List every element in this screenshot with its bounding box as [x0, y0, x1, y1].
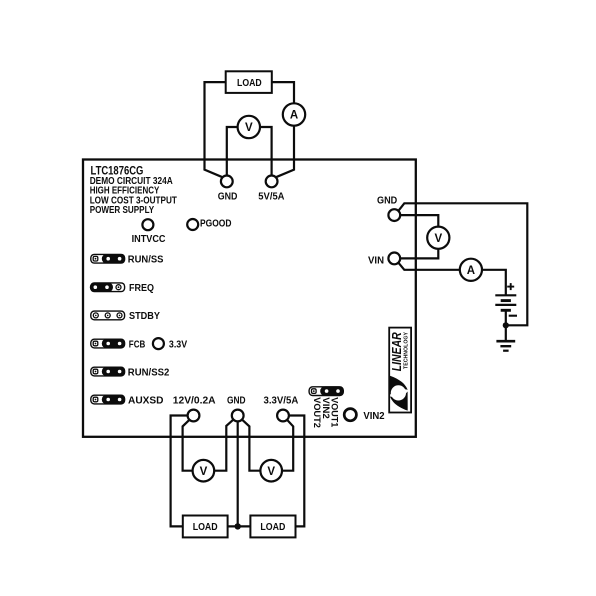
- svg-text:V: V: [200, 466, 208, 478]
- battery BT1 plates: [495, 295, 516, 325]
- svg-text:LOAD: LOAD: [193, 522, 218, 533]
- svg-text:V: V: [434, 233, 442, 245]
- circle PGOOD: [187, 219, 198, 230]
- svg-text:LINEAR: LINEAR: [390, 332, 404, 371]
- ammeter A2r: [460, 259, 482, 281]
- jumper VOUT1/VIN2/VOUT2: [309, 386, 344, 396]
- circle INTVCC: [142, 219, 153, 230]
- jumper FCB: [91, 339, 125, 349]
- svg-text:GND: GND: [377, 196, 397, 207]
- svg-text:FCB: FCB: [129, 339, 146, 350]
- logo LT mark: [390, 376, 408, 395]
- svg-text:V: V: [245, 122, 253, 134]
- jumper RUN/SS: [91, 254, 125, 264]
- svg-text:VIN: VIN: [368, 255, 384, 266]
- load LOAD (top): [226, 71, 272, 93]
- svg-text:5V/5A: 5V/5A: [258, 192, 284, 203]
- wire voltmeter V1b to GND bottom terminal: [214, 420, 233, 471]
- wire 3.3V terminal to LOAD2 right: [289, 416, 304, 527]
- node LOAD junction dot: [235, 523, 241, 529]
- svg-text:AUXSD: AUXSD: [128, 395, 164, 406]
- svg-text:GND: GND: [227, 396, 246, 407]
- svg-text:VIN2: VIN2: [363, 411, 385, 422]
- terminal 3.3V/5A: [277, 410, 289, 422]
- circle 3.3V: [153, 338, 164, 349]
- svg-text:VOUT2: VOUT2: [311, 397, 322, 428]
- jumper FREQ: [90, 283, 125, 293]
- wire LOAD1 to LOAD2 through junction: [228, 525, 251, 527]
- svg-text:12V/0.2A: 12V/0.2A: [173, 396, 216, 407]
- voltmeter V1b: [193, 460, 215, 482]
- ground symbol: [496, 325, 515, 350]
- voltmeter V1t: [238, 116, 260, 138]
- terminal GND (right): [388, 209, 400, 221]
- jumper STDBY: [91, 311, 125, 320]
- wire from voltmeter V2r to VIN terminal: [400, 249, 438, 259]
- svg-text:LOAD: LOAD: [260, 522, 285, 533]
- terminal GND (bottom): [232, 410, 244, 422]
- wire from LOAD right to ammeter A1t: [272, 82, 294, 103]
- svg-text:LOAD: LOAD: [237, 78, 262, 89]
- svg-text:A: A: [290, 110, 298, 122]
- wire from voltmeter V1t left to GND terminal top: [227, 127, 238, 176]
- terminal VIN: [388, 253, 400, 265]
- wire voltmeter V2b to 3.3V terminal: [282, 420, 293, 471]
- svg-text:RUN/SS2: RUN/SS2: [128, 367, 170, 378]
- svg-text:FREQ: FREQ: [129, 283, 154, 294]
- terminal 5V/5A: [266, 176, 278, 188]
- Linear Technology logo box: [389, 328, 411, 413]
- node battery negative junction: [503, 322, 509, 328]
- wire from GND right terminal to voltmeter V2r: [400, 215, 438, 227]
- load LOAD2 (bottom right): [250, 516, 295, 538]
- svg-text:PGOOD: PGOOD: [200, 218, 232, 229]
- jumper AUXSD: [91, 395, 125, 405]
- wire from ammeter A1t to 5V/5A terminal: [276, 126, 294, 178]
- svg-text:3.3V/5A: 3.3V/5A: [264, 396, 299, 407]
- wire from VIN terminal to ammeter A2r: [399, 263, 460, 270]
- ammeter A1t: [283, 103, 305, 125]
- svg-text:INTVCC: INTVCC: [132, 234, 166, 245]
- battery minus sign: [509, 315, 517, 317]
- svg-text:V: V: [267, 466, 275, 478]
- wire from LOAD left to GND terminal: [205, 82, 226, 177]
- wire from ammeter A2r to battery positive: [482, 270, 506, 296]
- svg-text:GND: GND: [218, 192, 238, 203]
- demo board outline: [83, 160, 416, 437]
- voltmeter V2b: [260, 460, 282, 482]
- voltmeter V2r: [427, 227, 449, 249]
- svg-text:RUN/SS: RUN/SS: [128, 255, 164, 266]
- wire 12V terminal to voltmeter V1b: [183, 420, 193, 471]
- battery plus sign: [507, 283, 514, 290]
- svg-text:A: A: [467, 265, 475, 277]
- svg-text:POWER SUPPLY: POWER SUPPLY: [90, 205, 155, 216]
- svg-text:TECHNOLOGY: TECHNOLOGY: [403, 331, 409, 369]
- wire 12V terminal to LOAD1 left: [171, 416, 188, 527]
- terminal GND (top): [221, 176, 233, 188]
- terminal VIN2: [344, 409, 356, 421]
- wire GND bottom terminal to junction: [237, 421, 239, 526]
- terminal 12V/0.2A: [188, 410, 200, 422]
- wire GND bottom terminal to voltmeter V2b: [242, 420, 261, 471]
- wire from GND right terminal to battery top: [399, 203, 528, 325]
- jumper RUN/SS2: [91, 367, 125, 377]
- svg-text:STDBY: STDBY: [129, 311, 160, 322]
- svg-text:3.3V: 3.3V: [169, 339, 188, 350]
- load LOAD1 (bottom left): [183, 516, 228, 538]
- wire from voltmeter V1t right to 5V/5A terminal top: [259, 127, 271, 176]
